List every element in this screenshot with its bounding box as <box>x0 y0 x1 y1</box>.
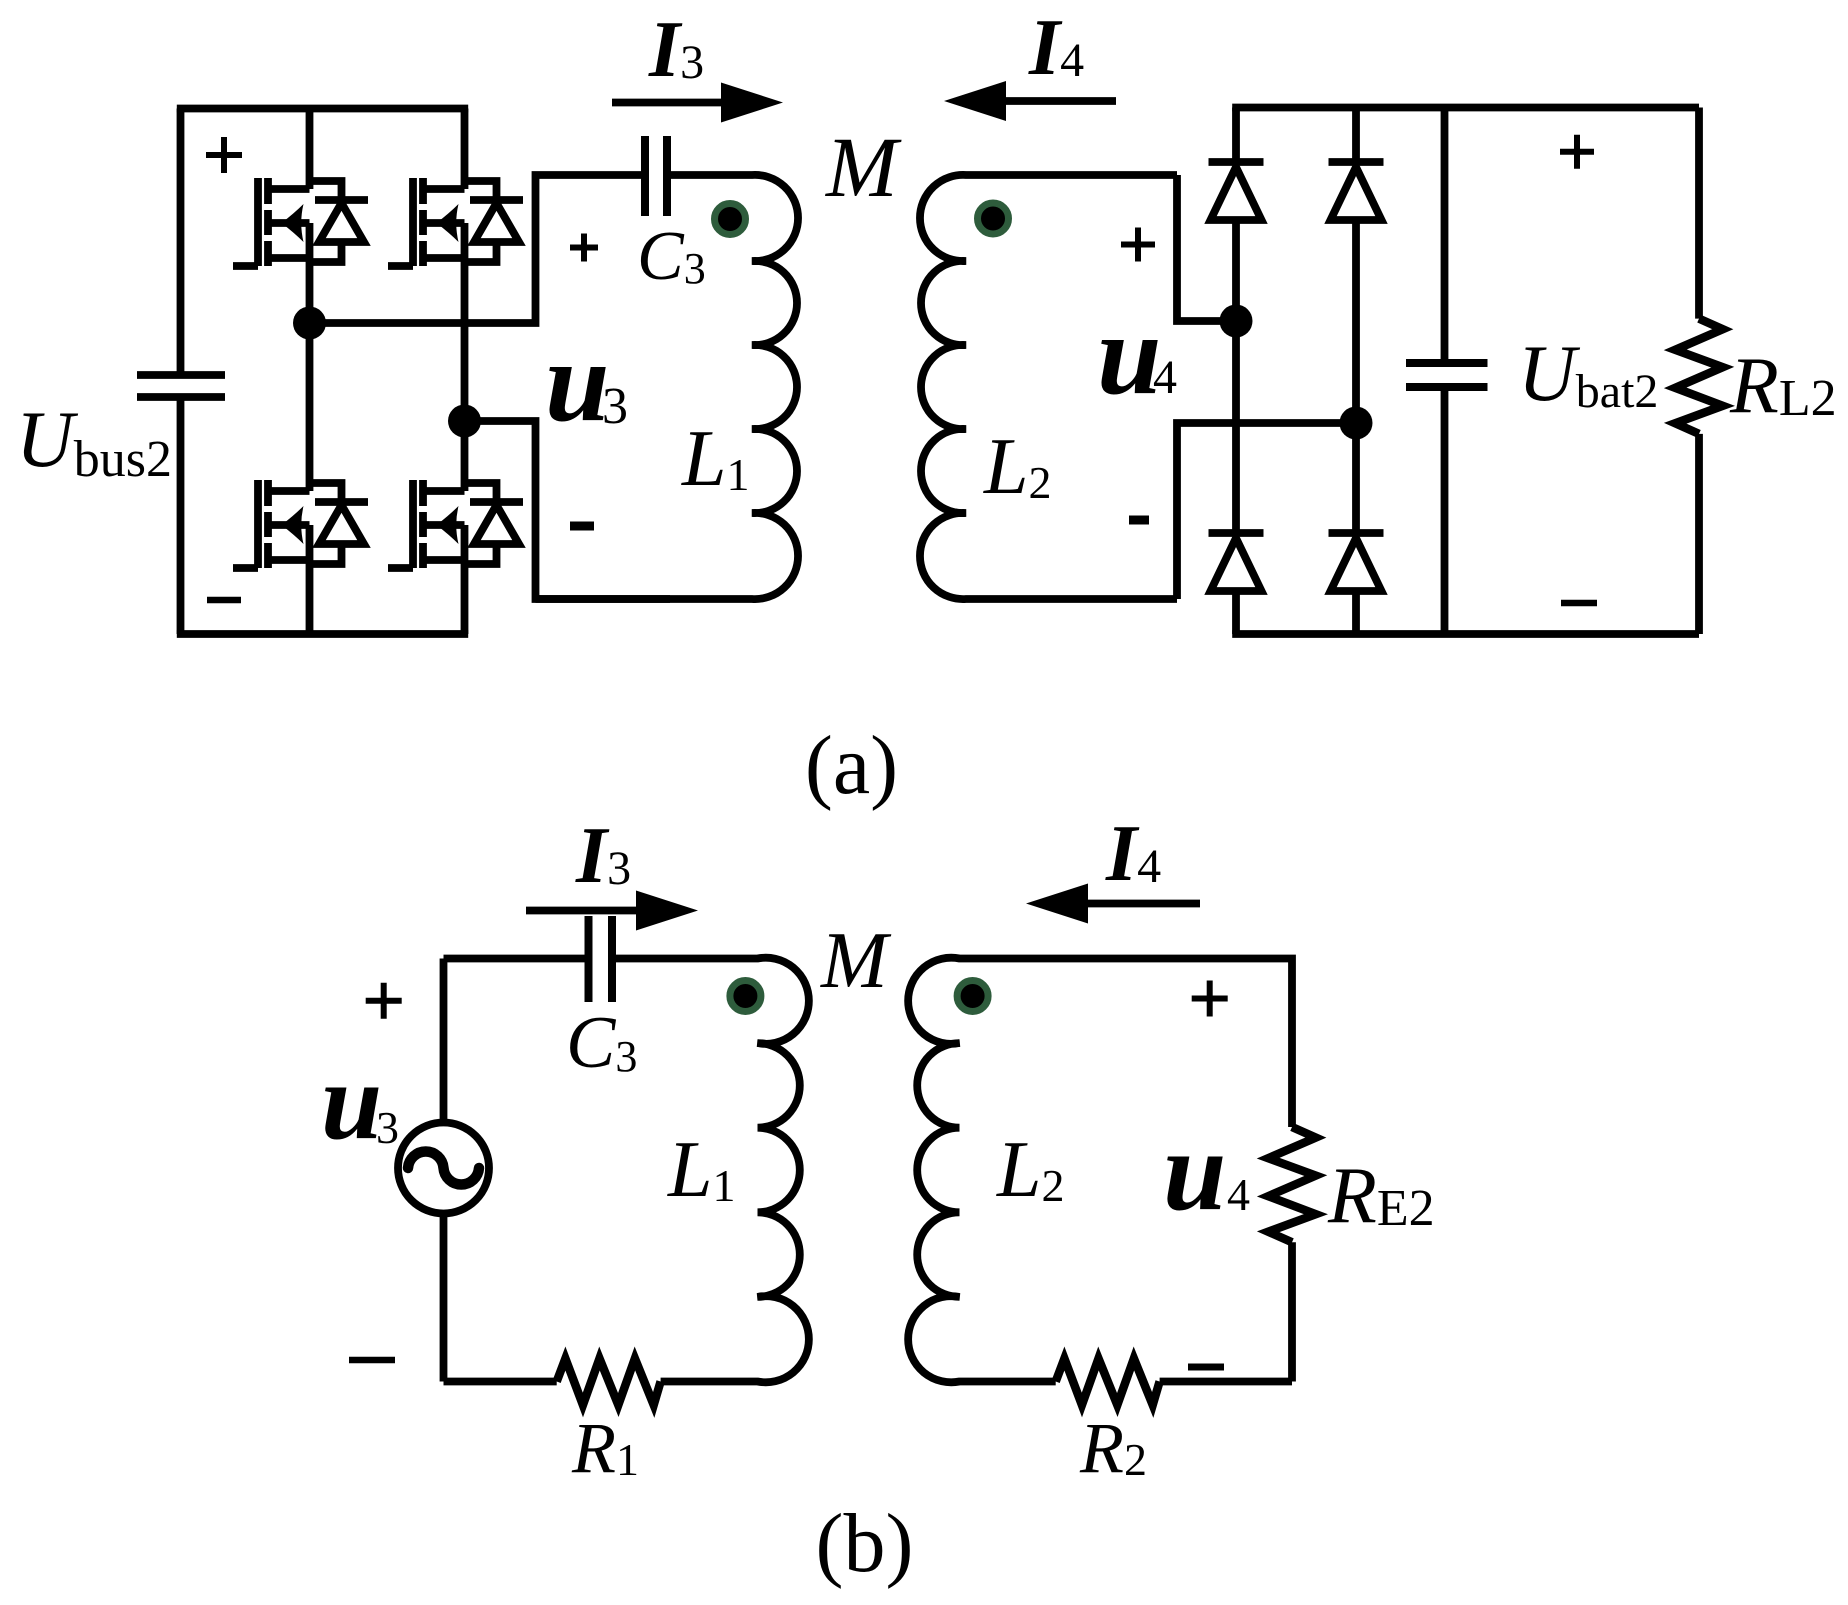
svg-text:I4: I4 <box>1105 810 1161 898</box>
svg-text:L2: L2 <box>996 1126 1065 1214</box>
capacitor C3 (b) <box>589 916 613 1002</box>
wire: inverter right leg middle <box>461 223 469 491</box>
label + (U4) <box>1121 228 1155 262</box>
source U3 (b) sine source <box>398 1123 489 1214</box>
label + (Ubat2) <box>1560 135 1594 169</box>
wire: (b) bottom-left <box>444 1378 557 1386</box>
label + (U3 b) <box>366 983 402 1019</box>
svg-text:(b): (b) <box>816 1497 914 1590</box>
label + (U3) <box>570 234 598 262</box>
wire: (b) bottom to L2 <box>969 1378 1056 1386</box>
svg-text:Ubus2: Ubus2 <box>16 396 172 488</box>
label - (U4) <box>1129 516 1149 525</box>
resistor RE2 <box>1268 1127 1316 1242</box>
node: L1 polarity dot (a) <box>715 204 746 235</box>
wire: right bridge midpoint to L1 bottom <box>465 421 671 599</box>
transistor Q4 (bottom-right MOSFET with body diode) <box>388 480 523 568</box>
arrow I4 (b) <box>1026 884 1200 924</box>
wire: rectifier top rail <box>1232 104 1699 112</box>
wire: DC bus left branch upper <box>177 109 185 376</box>
svg-text:I3: I3 <box>648 6 704 94</box>
resistor R2 <box>1056 1359 1160 1406</box>
wire: inverter left leg middle <box>306 223 314 491</box>
svg-text:u3: u3 <box>321 1040 399 1162</box>
capacitor Cout <box>1406 363 1488 387</box>
arrow I3 (b) <box>526 891 698 931</box>
label + (Ubus2) <box>206 137 242 173</box>
wire: DC bus left branch lower <box>177 397 185 634</box>
label - (U3 b) <box>349 1357 395 1364</box>
node: left bridge midpoint <box>293 307 326 340</box>
arrow I3 (a) <box>612 83 783 123</box>
svg-text:u4: u4 <box>1163 1107 1250 1234</box>
arrow I4 (a) <box>944 81 1116 121</box>
capacitor Ubus2 <box>137 375 225 397</box>
resistor RL2 <box>1675 319 1723 434</box>
label - (Ubat2) <box>1561 600 1597 607</box>
label - (U3) <box>570 522 594 531</box>
svg-text:(a): (a) <box>805 719 898 812</box>
node: L2 polarity dot (a) <box>978 203 1009 234</box>
svg-text:C3: C3 <box>566 1002 637 1084</box>
wire: load branch lower <box>1695 434 1703 634</box>
wire: output capacitor branch <box>1441 108 1449 635</box>
wire: L2 bottom to rectifier <box>1177 423 1356 599</box>
wire: (b) bottom-right <box>1160 1378 1292 1386</box>
inductor L2 (a) <box>920 175 1177 599</box>
svg-text:L1: L1 <box>681 415 750 503</box>
transistor Q1 (top-left MOSFET with body diode) <box>233 178 368 266</box>
svg-text:C3: C3 <box>637 218 706 295</box>
node: L2 polarity dot (b) <box>957 981 988 1012</box>
inductor L1 (a) <box>536 175 799 599</box>
svg-text:u4: u4 <box>1097 291 1177 419</box>
wire: (b) left vertical lower <box>440 1215 448 1382</box>
wire: (b) left vertical upper <box>440 959 448 1122</box>
wire: (b) top-left <box>444 955 589 963</box>
wire: inverter top rail <box>177 105 468 113</box>
diode D4 (right bottom) <box>1329 533 1384 591</box>
wire: rectifier right leg segments <box>1352 108 1360 635</box>
label + (U4 b) <box>1192 981 1228 1017</box>
svg-text:Ubat2: Ubat2 <box>1518 330 1658 418</box>
svg-text:M: M <box>824 119 902 215</box>
wire: L2 top to rectifier <box>1177 175 1236 321</box>
svg-text:I3: I3 <box>575 812 631 900</box>
svg-text:u3: u3 <box>545 318 628 446</box>
wire: load branch upper <box>1695 108 1703 319</box>
wire: (b) bottom to L1 <box>661 1378 749 1386</box>
wire: (b) top-right <box>969 959 1293 1128</box>
node: rectifier left midpoint <box>1220 305 1253 338</box>
wire: inverter left leg lower <box>306 525 314 634</box>
node: rectifier right midpoint <box>1340 407 1373 440</box>
wire: (b) right vertical lower <box>1288 1242 1296 1381</box>
svg-text:L1: L1 <box>667 1126 736 1214</box>
node: L1 polarity dot (b) <box>730 981 761 1012</box>
wire: inverter left leg upper <box>306 109 314 190</box>
capacitor C3 <box>645 136 667 216</box>
wire: inverter right leg upper <box>461 109 469 190</box>
transistor Q2 (top-right MOSFET with body diode) <box>388 178 523 266</box>
inductor L2 (b) <box>908 958 968 1383</box>
diode D3 (left bottom) <box>1209 533 1264 591</box>
transistor Q3 (bottom-left MOSFET with body diode) <box>233 480 368 568</box>
svg-text:L2: L2 <box>983 423 1052 511</box>
wire: left bridge midpoint to C3 <box>310 175 646 323</box>
inductor L1 (b) <box>612 958 809 1383</box>
node: right bridge midpoint <box>448 405 481 438</box>
wire: rectifier left leg segments <box>1232 108 1240 635</box>
label - (Ubus2) <box>207 597 241 604</box>
svg-text:I4: I4 <box>1028 4 1084 92</box>
svg-text:RL2: RL2 <box>1729 342 1837 430</box>
svg-text:RE2: RE2 <box>1327 1152 1435 1240</box>
wire: inverter right leg lower <box>461 525 469 634</box>
diode D1 (left top) <box>1209 162 1264 220</box>
svg-text:R2: R2 <box>1079 1408 1147 1488</box>
wire: inverter bottom rail <box>177 630 468 638</box>
diode D2 (right top) <box>1329 162 1384 220</box>
svg-text:M: M <box>820 917 892 1005</box>
resistor R1 <box>557 1359 661 1406</box>
wire: rectifier bottom rail <box>1232 630 1699 638</box>
svg-text:R1: R1 <box>571 1408 639 1488</box>
label - (U4 b) <box>1188 1364 1224 1371</box>
